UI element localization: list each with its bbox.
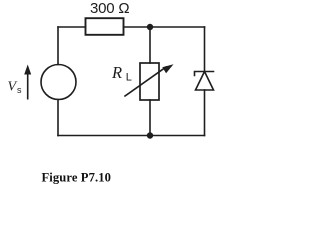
wire: RL branch vertical lower (RL box to bottom junction) xyxy=(149,100,151,136)
wire: bottom horizontal xyxy=(58,135,205,137)
wire: top horizontal (resistor to right side) xyxy=(124,26,205,28)
wire: right vertical upper (top wire to zener) xyxy=(204,27,206,72)
wire: left vertical lower (source to bottom wire) xyxy=(57,100,59,136)
svg-text:V: V xyxy=(8,79,18,94)
svg-text:Figure P7.10: Figure P7.10 xyxy=(42,170,112,184)
source Vs (circle) xyxy=(41,65,76,100)
zener diode (cathode bar with bent end + triangle) xyxy=(195,72,214,91)
wire: top-left horizontal (source top to resistor) xyxy=(58,26,86,28)
variable resistor RL (box with arrow) xyxy=(125,63,174,100)
svg-text:300 Ω: 300 Ω xyxy=(90,0,129,17)
label: 300 Ω value xyxy=(90,0,129,17)
wire: RL branch vertical upper (top junction to RL box) xyxy=(149,27,151,63)
wire: left vertical upper (top wire down to source) xyxy=(57,27,59,65)
caption: Figure P7.10 xyxy=(42,170,112,184)
node: bottom junction dot xyxy=(147,132,153,138)
node: top junction dot xyxy=(147,24,153,30)
svg-text:L: L xyxy=(126,71,132,83)
wire: right vertical lower (zener to bottom wire) xyxy=(204,90,206,136)
label: Vs with polarity arrow xyxy=(8,65,32,99)
svg-text:R: R xyxy=(111,63,122,82)
label: RL xyxy=(111,63,132,84)
svg-text:s: s xyxy=(17,85,22,95)
resistor 300 ohm (box) xyxy=(86,18,124,35)
